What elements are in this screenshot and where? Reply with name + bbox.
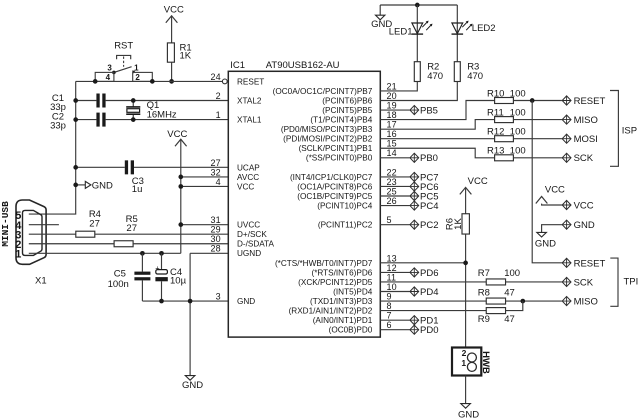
svg-text:VCC: VCC xyxy=(164,5,184,16)
node LED1 top junction xyxy=(415,3,420,8)
resistor R8 47 xyxy=(478,287,515,304)
svg-text:100: 100 xyxy=(510,108,526,119)
svg-text:24: 24 xyxy=(210,72,220,82)
svg-text:(INT5)PD4: (INT5)PD4 xyxy=(333,287,373,296)
svg-text:R7: R7 xyxy=(478,268,490,279)
node PC5 connector xyxy=(410,191,439,202)
wire PB0 stub xyxy=(380,157,409,159)
svg-text:GND: GND xyxy=(182,380,203,391)
node AVCC junction xyxy=(178,175,183,180)
wire AVCC pin 32 xyxy=(181,176,229,178)
node PC7 connector xyxy=(410,172,439,183)
svg-text:SCK: SCK xyxy=(574,153,594,164)
wire R8 to TPI MISO xyxy=(506,300,562,302)
svg-text:5: 5 xyxy=(387,215,392,225)
svg-text:R13: R13 xyxy=(487,146,504,157)
svg-text:470: 470 xyxy=(467,71,483,82)
pin 24 RESET inverted circle xyxy=(222,79,227,84)
svg-text:(INT4/ICP1/CLK0)PC7: (INT4/ICP1/CLK0)PC7 xyxy=(290,173,373,182)
node PB5 connector xyxy=(410,105,438,116)
ground GND (left rail arrow) xyxy=(76,181,113,192)
wire R13 to SCK pinhead xyxy=(513,157,562,159)
svg-text:D-/SDATA: D-/SDATA xyxy=(237,240,275,249)
svg-text:PD6: PD6 xyxy=(420,268,438,279)
svg-text:VCC: VCC xyxy=(468,176,488,187)
node TPI GND connector xyxy=(562,220,595,231)
svg-text:VCC: VCC xyxy=(574,200,594,211)
wire LED top rail xyxy=(380,4,457,6)
svg-text:19: 19 xyxy=(387,100,397,110)
svg-text:XTAL2: XTAL2 xyxy=(237,96,262,105)
wire PB3 to R11 xyxy=(380,120,494,130)
svg-text:(PCINT6)PB6: (PCINT6)PB6 xyxy=(322,96,372,105)
svg-text:25: 25 xyxy=(387,186,397,196)
wire USB pin3 D+ xyxy=(29,233,76,235)
svg-text:(*CTS/*HWB/T0/INT7)PD7: (*CTS/*HWB/T0/INT7)PD7 xyxy=(275,259,373,268)
svg-text:14: 14 xyxy=(387,148,397,158)
svg-text:18: 18 xyxy=(387,110,397,120)
svg-text:1: 1 xyxy=(15,248,21,260)
svg-text:4: 4 xyxy=(216,177,221,187)
svg-text:RESET: RESET xyxy=(574,258,606,269)
IC left pin numbers xyxy=(210,72,220,302)
svg-text:16MHz: 16MHz xyxy=(147,110,177,121)
node PD4 connector xyxy=(410,287,439,298)
svg-text:PD4: PD4 xyxy=(420,287,438,298)
svg-text:31: 31 xyxy=(210,215,220,225)
svg-text:(XCK/PCINT12)PD5: (XCK/PCINT12)PD5 xyxy=(298,278,373,287)
svg-text:1: 1 xyxy=(216,110,221,120)
wire GND net under IC xyxy=(142,300,228,302)
wire UGND pin 28 xyxy=(190,252,228,254)
svg-text:17: 17 xyxy=(387,120,397,130)
svg-text:2: 2 xyxy=(216,91,221,101)
ground GND (top, LEDs) xyxy=(371,5,392,30)
svg-text:(T1/PCINT4)PB4: (T1/PCINT4)PB4 xyxy=(310,116,372,125)
wire R3 to PB6 pin 20 xyxy=(380,82,457,101)
svg-text:R8: R8 xyxy=(478,287,490,298)
wire PD1 stub xyxy=(380,319,409,321)
svg-text:TPI: TPI xyxy=(624,277,639,288)
node GND branch / rail xyxy=(73,183,78,188)
svg-text:PD0: PD0 xyxy=(420,325,438,336)
svg-text:RESET: RESET xyxy=(574,96,606,107)
svg-text:GND: GND xyxy=(237,297,255,306)
wire UGND drop to GND net and GND symbol xyxy=(189,253,191,375)
svg-text:RST: RST xyxy=(114,40,133,51)
wire R1 to RESET net xyxy=(171,62,173,81)
svg-text:2: 2 xyxy=(135,73,140,82)
svg-text:2: 2 xyxy=(462,348,467,358)
wire R11 to MISO pinhead xyxy=(513,119,562,121)
svg-text:IC1: IC1 xyxy=(230,60,245,71)
op-amp U1 : IC1 AT90USB162-AU body xyxy=(228,60,380,337)
svg-text:26: 26 xyxy=(387,196,397,206)
wire UVCC pin 31 xyxy=(181,224,229,226)
svg-text:11: 11 xyxy=(387,272,397,282)
wire GND rail (left) xyxy=(29,81,76,214)
wire RESET down to TPI xyxy=(532,101,562,263)
svg-text:7: 7 xyxy=(387,311,392,321)
svg-text:R10: R10 xyxy=(487,88,504,99)
svg-text:1: 1 xyxy=(461,358,466,368)
svg-text:1: 1 xyxy=(134,63,139,72)
svg-text:22: 22 xyxy=(387,167,397,177)
capacitor C4 10u (polarized) xyxy=(155,253,186,301)
wire PD3 to R8 xyxy=(380,300,486,302)
svg-text:GND: GND xyxy=(574,220,595,231)
node TPI VCC connector xyxy=(562,200,594,211)
resistor R13 100 xyxy=(487,146,526,161)
svg-text:4: 4 xyxy=(106,73,111,82)
crystal Q1 16MHz xyxy=(126,100,177,120)
node PC6 connector xyxy=(410,182,439,193)
power VCC (above R6) xyxy=(460,176,488,214)
svg-text:PC4: PC4 xyxy=(420,201,438,212)
node C3 / GND rail xyxy=(73,165,78,170)
svg-text:100: 100 xyxy=(510,146,526,157)
node PD1 connector xyxy=(410,316,439,327)
node TPI MISO connector xyxy=(562,296,598,307)
svg-text:R9: R9 xyxy=(478,314,490,325)
node ISP RESET junction xyxy=(530,98,535,103)
resistor R2 470 xyxy=(414,62,443,83)
svg-text:(TXD1/INT3)PD3: (TXD1/INT3)PD3 xyxy=(310,297,373,306)
node ISP MISO connector xyxy=(562,115,598,126)
svg-text:32: 32 xyxy=(210,167,220,177)
IC right pin names xyxy=(273,87,373,335)
diode LED1 xyxy=(389,5,433,62)
svg-text:28: 28 xyxy=(210,244,220,254)
svg-text:21: 21 xyxy=(387,81,397,91)
svg-text:15: 15 xyxy=(387,139,397,149)
svg-text:XTAL1: XTAL1 xyxy=(237,116,262,125)
svg-text:GND: GND xyxy=(458,409,479,419)
svg-text:VCC: VCC xyxy=(167,129,187,140)
svg-text:UCAP: UCAP xyxy=(237,163,260,172)
svg-text:1u: 1u xyxy=(132,184,143,195)
svg-text:13: 13 xyxy=(387,253,397,263)
node switch left junction xyxy=(93,79,98,84)
svg-text:6: 6 xyxy=(387,320,392,330)
wire PD4 stub xyxy=(380,291,409,293)
resistor R10 100 xyxy=(487,88,526,103)
svg-text:D+/SCK: D+/SCK xyxy=(237,230,267,239)
svg-text:(*SS/PCINT0)PB0: (*SS/PCINT0)PB0 xyxy=(306,154,373,163)
wire R6 to PD7 line and HWB xyxy=(465,234,467,352)
wire RESET net xyxy=(76,80,223,82)
node PD0 connector xyxy=(410,325,439,336)
node Q1 top xyxy=(131,98,136,103)
svg-text:AVCC: AVCC xyxy=(237,173,259,182)
svg-text:(OC1A/PCINT8)PC6: (OC1A/PCINT8)PC6 xyxy=(297,182,373,191)
resistor R5 27 xyxy=(114,214,138,247)
svg-text:27: 27 xyxy=(210,158,220,168)
svg-text:16: 16 xyxy=(387,129,397,139)
node PB0 connector xyxy=(410,153,438,164)
node C4 / GND xyxy=(159,299,164,304)
wire PC2 stub xyxy=(380,224,409,226)
svg-text:100: 100 xyxy=(504,268,520,279)
ground GND (TPI header) xyxy=(535,232,556,249)
svg-text:(OC1B/PCINT9)PC5: (OC1B/PCINT9)PC5 xyxy=(297,192,373,201)
wire PB1 to R13 xyxy=(380,148,494,158)
TPI bracket xyxy=(610,258,638,306)
node ISP RESET connector xyxy=(562,96,605,107)
node MISO junction xyxy=(520,299,525,304)
wire VCC rail down to VBUS line xyxy=(180,140,182,253)
wire PC7 stub xyxy=(380,176,409,178)
svg-text:UGND: UGND xyxy=(237,249,261,258)
wire PC5 stub xyxy=(380,195,409,197)
svg-text:C5: C5 xyxy=(114,269,126,280)
node TPI SCK connector xyxy=(562,277,594,288)
node Q1 bottom xyxy=(131,117,136,122)
resistor R12 100 xyxy=(487,127,526,142)
svg-text:1K: 1K xyxy=(453,218,464,230)
svg-text:(*RTS/INT6)PD6: (*RTS/INT6)PD6 xyxy=(311,268,372,277)
svg-text:(PCINT11)PC2: (PCINT11)PC2 xyxy=(318,221,373,230)
svg-text:PB5: PB5 xyxy=(420,105,438,116)
svg-text:RESET: RESET xyxy=(237,77,264,86)
node TPI RESET connector xyxy=(562,258,605,269)
capacitor C1 33p xyxy=(50,93,228,113)
svg-text:(OC0A/OC1C/PCINT7)PB7: (OC0A/OC1C/PCINT7)PB7 xyxy=(273,87,373,96)
node PD7 / R6 / HWB junction xyxy=(463,261,468,266)
svg-text:10µ: 10µ xyxy=(170,276,187,287)
svg-text:LED2: LED2 xyxy=(472,23,496,34)
svg-text:PC2: PC2 xyxy=(420,220,438,231)
ground GND (HWB) xyxy=(458,404,479,419)
svg-text:100: 100 xyxy=(510,88,526,99)
wire GND connector to symbol xyxy=(542,225,562,233)
svg-text:MINI-USB: MINI-USB xyxy=(0,201,11,247)
svg-text:AT90USB162-AU: AT90USB162-AU xyxy=(266,60,340,71)
resistor R3 470 xyxy=(454,62,483,83)
power VCC (top, R1 pull-up) xyxy=(164,5,184,43)
svg-text:MOSI: MOSI xyxy=(574,134,598,145)
power VCC (TPI header) xyxy=(536,185,565,205)
svg-text:HWB: HWB xyxy=(480,351,491,374)
wire PD6 stub xyxy=(380,271,409,273)
node C1 / GND rail xyxy=(73,98,78,103)
resistor R9 47 xyxy=(478,308,515,325)
diode LED2 xyxy=(452,5,496,62)
svg-text:R11: R11 xyxy=(487,108,504,119)
node UGND / GND net xyxy=(188,299,193,304)
svg-text:ISP: ISP xyxy=(622,126,637,137)
wire R10 to RESET pinhead xyxy=(513,100,562,102)
node RESET net junction at R1 xyxy=(169,79,174,84)
capacitor C2 33p xyxy=(50,112,228,132)
svg-text:SCK: SCK xyxy=(574,277,594,288)
wire HWB to GND xyxy=(465,376,467,404)
node ISP SCK connector xyxy=(562,153,594,164)
IC right pin numbers xyxy=(387,81,397,330)
switch RST (pushbutton) xyxy=(95,40,152,81)
wire USB pin4 stub (ID) xyxy=(29,224,59,226)
wire PB2 to R12 xyxy=(380,138,494,140)
svg-text:9: 9 xyxy=(387,291,392,301)
svg-text:MISO: MISO xyxy=(574,296,598,307)
svg-text:47: 47 xyxy=(504,314,515,325)
wire D+/SCK pin 29 xyxy=(95,233,229,235)
wire D-/SDATA pin 30 xyxy=(133,243,228,245)
svg-text:LED1: LED1 xyxy=(389,27,413,38)
svg-text:PB0: PB0 xyxy=(420,153,438,164)
wire R9 up to MISO line xyxy=(506,301,523,311)
wire PD7 pin 13 xyxy=(380,262,465,264)
svg-text:R12: R12 xyxy=(487,127,504,138)
wire PB5 stub xyxy=(380,109,409,111)
connector X1 MINI-USB xyxy=(0,200,47,287)
capacitor C5 100n xyxy=(108,253,151,301)
svg-text:12: 12 xyxy=(387,263,397,273)
wire USB pin2 D- xyxy=(29,243,114,245)
svg-text:10: 10 xyxy=(387,282,397,292)
wire PC6 stub xyxy=(380,185,409,187)
wire R7 to TPI SCK xyxy=(506,281,562,283)
wire PB4 to R10 xyxy=(380,101,494,120)
node VCC junction xyxy=(178,184,183,189)
ISP bracket xyxy=(610,91,637,167)
node switch right junction xyxy=(150,79,155,84)
node ISP MOSI connector xyxy=(562,134,598,145)
capacitor C3 1u xyxy=(76,160,229,195)
wire PD0 stub xyxy=(380,329,409,331)
svg-text:(PCINT10)PC4: (PCINT10)PC4 xyxy=(317,201,372,210)
svg-text:470: 470 xyxy=(427,71,443,82)
wire PD5 to R7 xyxy=(380,281,486,283)
svg-text:3: 3 xyxy=(216,291,221,301)
svg-text:33p: 33p xyxy=(50,120,66,131)
node PD6 connector xyxy=(410,268,439,279)
svg-text:(PDI/MOSI/PCINT2)PB2: (PDI/MOSI/PCINT2)PB2 xyxy=(283,135,373,144)
svg-text:8: 8 xyxy=(387,301,392,311)
resistor R7 100 xyxy=(478,268,520,285)
wire R2 to PB7 pin 21 xyxy=(380,82,417,91)
svg-text:20: 20 xyxy=(387,91,397,101)
node PC2 connector xyxy=(410,220,439,231)
resistor R4 27 xyxy=(76,209,101,237)
node PC4 connector xyxy=(410,201,439,212)
svg-text:47: 47 xyxy=(504,287,515,298)
svg-text:VCC: VCC xyxy=(545,185,565,196)
node C5 / VBUS xyxy=(140,251,145,256)
svg-text:GND: GND xyxy=(535,239,556,250)
svg-text:27: 27 xyxy=(89,218,100,229)
resistor R6 1K (vertical) xyxy=(445,214,470,234)
resistor R1 1K xyxy=(167,42,191,62)
svg-text:(AIN0/INT1)PD1: (AIN0/INT1)PD1 xyxy=(313,316,373,325)
svg-text:23: 23 xyxy=(387,177,397,187)
node C4 / VBUS xyxy=(159,251,164,256)
wire VCC pin 4 xyxy=(181,185,229,187)
wire R12 to MOSI pinhead xyxy=(513,138,562,140)
svg-text:(RXD1/AIN1/INT2)PD2: (RXD1/AIN1/INT2)PD2 xyxy=(289,307,373,316)
svg-text:3: 3 xyxy=(107,63,112,72)
svg-text:UVCC: UVCC xyxy=(237,221,260,230)
connector HWB jumper xyxy=(452,348,491,376)
wire PD2 to R9 xyxy=(380,310,486,312)
svg-text:27: 27 xyxy=(126,223,137,234)
resistor R11 100 xyxy=(487,108,526,123)
svg-text:(PCINT5)PB5: (PCINT5)PB5 xyxy=(322,106,372,115)
svg-text:(PD0/MISO/PCINT3)PB3: (PD0/MISO/PCINT3)PB3 xyxy=(281,125,373,134)
svg-text:VCC: VCC xyxy=(237,182,254,191)
svg-text:100: 100 xyxy=(510,127,526,138)
svg-text:30: 30 xyxy=(210,234,220,244)
ground GND (below IC) xyxy=(182,376,203,391)
svg-text:100n: 100n xyxy=(108,279,129,290)
node UVCC junction xyxy=(178,222,183,227)
svg-text:29: 29 xyxy=(210,225,220,235)
IC left pin names xyxy=(237,77,275,306)
svg-text:(OC0B)PD0: (OC0B)PD0 xyxy=(329,326,373,335)
svg-text:(SCLK/PCINT1)PB1: (SCLK/PCINT1)PB1 xyxy=(299,144,373,153)
svg-text:1K: 1K xyxy=(180,50,192,61)
svg-text:MISO: MISO xyxy=(574,115,598,126)
wire VCC to R1 xyxy=(171,17,173,43)
svg-text:X1: X1 xyxy=(35,276,47,287)
wire PC4 stub xyxy=(380,205,409,207)
node C2 / GND rail xyxy=(73,117,78,122)
svg-text:GND: GND xyxy=(92,181,113,192)
power VCC (mid, AVCC/VCC/UVCC rail) xyxy=(167,129,187,253)
wire USB pin1 VBUS xyxy=(29,252,181,254)
